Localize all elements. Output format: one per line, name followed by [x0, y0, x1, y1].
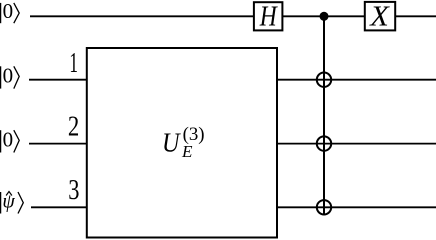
svg-text:2: 2 — [68, 111, 79, 142]
ket label |0> q0 — [1, 0, 20, 23]
svg-text:(3): (3) — [183, 125, 205, 145]
label U_E^(3) — [162, 125, 205, 161]
svg-text:3: 3 — [68, 175, 79, 206]
svg-text:X: X — [369, 1, 390, 32]
cnot target q3 — [317, 200, 331, 214]
control dot — [320, 12, 329, 21]
ket label |0> q2 — [1, 127, 20, 152]
svg-text:0: 0 — [3, 64, 14, 88]
wire q3 — [31, 206, 436, 208]
svg-text:H: H — [259, 1, 278, 32]
svg-text:ψ: ψ — [2, 191, 15, 213]
gate X — [365, 1, 395, 32]
svg-text:1: 1 — [69, 48, 78, 79]
svg-text:0: 0 — [3, 0, 14, 23]
svg-text:U: U — [162, 127, 181, 157]
gate H — [254, 1, 283, 32]
wire q2 — [29, 143, 436, 145]
control vertical line — [323, 16, 325, 215]
svg-text:0: 0 — [3, 127, 14, 151]
box U_E^(3) — [87, 48, 277, 238]
cnot target q2 — [317, 136, 331, 150]
ket label |psi-hat> q3 — [1, 191, 24, 214]
wire q0 — [30, 15, 436, 17]
ket label |0> q1 — [1, 64, 20, 89]
wire q1 — [29, 79, 436, 81]
cnot target q1 — [317, 73, 331, 87]
